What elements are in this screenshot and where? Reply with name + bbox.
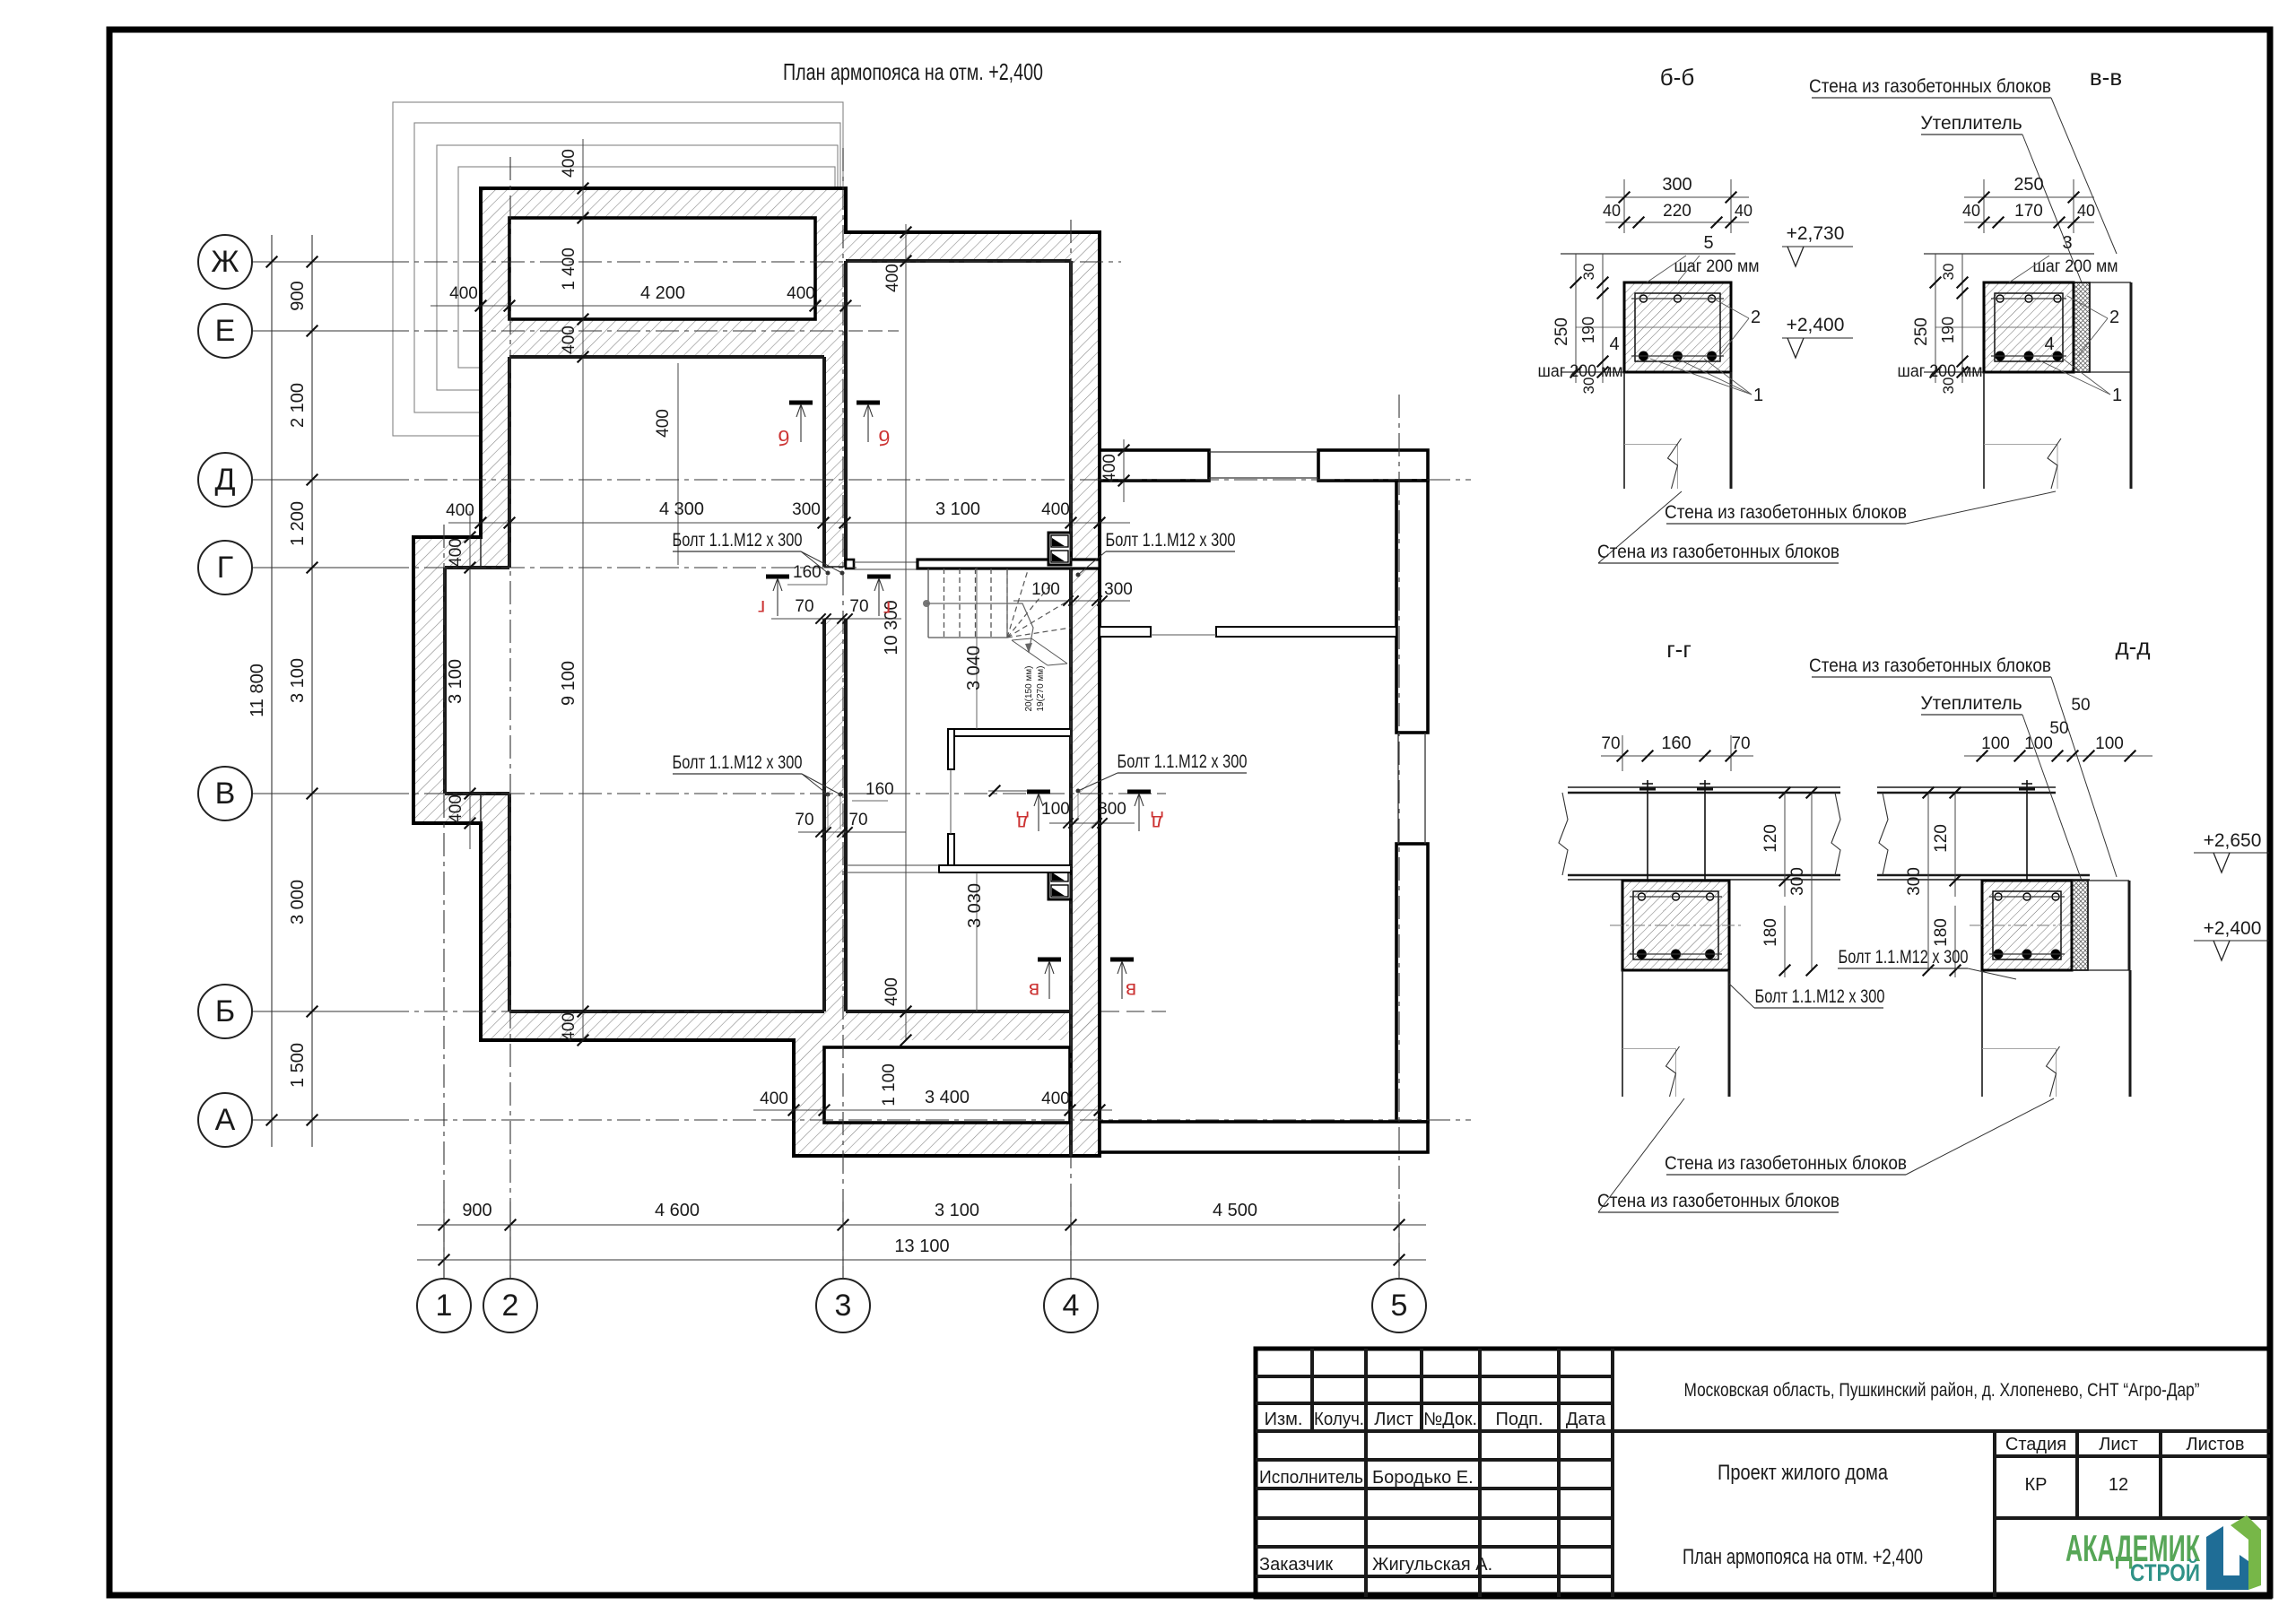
svg-text:4: 4	[2044, 334, 2054, 354]
roof overhang outline	[393, 102, 843, 436]
svg-text:100: 100	[1041, 800, 1070, 819]
svg-text:4 200: 4 200	[640, 283, 685, 303]
svg-text:3 400: 3 400	[925, 1088, 970, 1107]
svg-text:Стена из газобетонных блоков: Стена из газобетонных блоков	[1597, 542, 1839, 562]
stair hall dim line x1010	[905, 224, 907, 1040]
svg-text:4 300: 4 300	[659, 499, 704, 519]
svg-text:3 100: 3 100	[935, 499, 980, 519]
svg-text:4: 4	[1609, 334, 1619, 354]
svg-text:100: 100	[1031, 580, 1060, 599]
wall: right wall axis 4	[1071, 232, 1100, 1156]
svg-text:70: 70	[1601, 734, 1620, 753]
section v-v top dims	[1983, 179, 1985, 233]
wall: central wall upper	[824, 357, 846, 567]
svg-text:400: 400	[560, 325, 578, 354]
svg-text:д-д: д-д	[2116, 633, 2151, 660]
stair walk line	[923, 600, 930, 607]
garage window right	[1397, 733, 1399, 844]
axis lines horizontal	[252, 261, 386, 263]
section g-g floor slab	[1568, 786, 1840, 788]
svg-text:4: 4	[1063, 1289, 1080, 1323]
svg-text:2: 2	[1751, 308, 1761, 327]
svg-text:Стена из газобетонных блоков: Стена из газобетонных блоков	[1809, 655, 2051, 676]
svg-text:170: 170	[2014, 202, 2043, 221]
section v-v left dims	[1935, 254, 1936, 383]
section g-g armopoyas block	[1622, 881, 1729, 970]
svg-text:1: 1	[1753, 386, 1763, 405]
svg-text:Болт 1.1.М12 х 300: Болт 1.1.М12 х 300	[673, 752, 803, 773]
svg-text:160: 160	[1661, 733, 1691, 753]
svg-text:400: 400	[883, 977, 901, 1006]
svg-text:100: 100	[2095, 734, 2124, 753]
section b-b left dims	[1575, 254, 1577, 383]
section d-d left dims	[1954, 793, 1956, 897]
svg-text:+2,400: +2,400	[2204, 918, 2262, 939]
svg-text:3 100: 3 100	[288, 658, 308, 703]
svg-text:300: 300	[1662, 175, 1692, 195]
svg-text:Болт 1.1.М12 х 300: Болт 1.1.М12 х 300	[673, 530, 803, 551]
section marks g	[766, 575, 789, 579]
section b-b top dims	[1623, 179, 1625, 233]
svg-text:70: 70	[795, 597, 813, 616]
left overall dimension 11 800	[271, 235, 273, 1147]
wall outlines	[413, 188, 1100, 1156]
svg-text:19(270 мм): 19(270 мм)	[1036, 666, 1046, 712]
svg-text:30: 30	[1580, 264, 1597, 281]
svg-text:Колуч.: Колуч.	[1314, 1410, 1364, 1429]
svg-text:3: 3	[2062, 233, 2072, 253]
section b-b armopoyas block	[1624, 282, 1731, 372]
svg-text:шаг 200 мм: шаг 200 мм	[1898, 362, 1983, 381]
svg-text:Исполнитель: Исполнитель	[1259, 1468, 1363, 1488]
svg-text:Болт 1.1.М12 х 300: Болт 1.1.М12 х 300	[1755, 986, 1885, 1007]
section v-v slab lines	[1924, 253, 2094, 255]
svg-text:4 600: 4 600	[655, 1201, 700, 1220]
svg-text:в: в	[1029, 979, 1039, 1002]
svg-text:+2,730: +2,730	[1787, 223, 1845, 244]
opening: top room window band	[509, 218, 815, 319]
section g-g anchor bolts	[1647, 780, 1648, 881]
svg-text:Жигульская А.: Жигульская А.	[1372, 1555, 1492, 1575]
svg-text:300: 300	[1104, 580, 1133, 599]
svg-text:шаг 200 мм: шаг 200 мм	[2033, 257, 2118, 276]
svg-text:400: 400	[1041, 500, 1070, 519]
svg-text:Б: Б	[215, 994, 235, 1028]
svg-text:+2,400: +2,400	[1787, 315, 1845, 335]
svg-text:250: 250	[1912, 317, 1931, 346]
svg-text:Лист: Лист	[2099, 1435, 2137, 1454]
svg-text:900: 900	[288, 281, 308, 310]
svg-text:3 000: 3 000	[288, 880, 308, 924]
svg-text:40: 40	[1962, 202, 1980, 220]
svg-text:190: 190	[1579, 317, 1597, 343]
svg-text:70: 70	[849, 597, 868, 616]
svg-text:70: 70	[848, 811, 867, 829]
svg-text:Листов: Листов	[2187, 1435, 2245, 1454]
title block table	[1256, 1349, 2270, 1597]
svg-text:Дата: Дата	[1566, 1410, 1606, 1429]
dim 3 030	[976, 872, 978, 1011]
svg-text:Изм.: Изм.	[1265, 1410, 1303, 1429]
svg-text:9 100: 9 100	[559, 661, 578, 706]
svg-text:1 200: 1 200	[288, 501, 308, 546]
svg-text:3 100: 3 100	[446, 659, 465, 704]
section v-v armopoyas block	[1984, 282, 2074, 372]
svg-text:100: 100	[1981, 734, 2010, 753]
section d-d wall below	[1981, 970, 1983, 1097]
svg-text:5: 5	[1703, 233, 1713, 253]
svg-text:20(150 мм): 20(150 мм)	[1024, 666, 1034, 712]
stair break Z	[1012, 638, 1067, 665]
svg-text:3 030: 3 030	[965, 883, 985, 928]
garage top wall	[1100, 450, 1209, 481]
svg-text:б: б	[778, 426, 789, 449]
svg-text:Московская область, Пушкинский: Московская область, Пушкинский район, д.…	[1684, 1380, 2200, 1401]
svg-text:Стадия: Стадия	[2005, 1435, 2066, 1454]
svg-text:300: 300	[792, 500, 821, 519]
svg-text:50: 50	[2071, 696, 2090, 715]
wall: left wall upper	[481, 357, 509, 568]
wall: left wall lower	[481, 794, 509, 1011]
door threshold lower	[847, 864, 939, 866]
svg-text:СТРОЙ: СТРОЙ	[2130, 1558, 2200, 1586]
dim 4 300 / 300	[448, 522, 1130, 524]
svg-text:12: 12	[2109, 1475, 2128, 1495]
svg-text:900: 900	[462, 1201, 491, 1220]
door jamb cap	[846, 560, 854, 568]
section b-b slab lines	[1561, 253, 1735, 255]
svg-text:Стена из газобетонных блоков: Стена из газобетонных блоков	[1809, 76, 2051, 97]
flue symbol lower	[1048, 867, 1071, 899]
svg-text:Болт 1.1.М12 х 300: Болт 1.1.М12 х 300	[1839, 947, 1969, 968]
svg-text:Заказчик: Заказчик	[1259, 1555, 1333, 1575]
wall: bay window	[413, 537, 481, 823]
wall: central wall lower	[824, 619, 846, 1011]
svg-text:г-г: г-г	[1666, 636, 1692, 663]
stair landing strip	[918, 560, 1100, 568]
svg-text:+2,650: +2,650	[2204, 830, 2262, 851]
address cell	[1613, 1429, 2270, 1433]
svg-text:250: 250	[2013, 175, 2043, 195]
svg-text:1: 1	[436, 1289, 453, 1323]
axis lines vertical	[443, 525, 445, 1279]
svg-text:Утеплитель: Утеплитель	[1920, 113, 2022, 134]
svg-text:Стена из газобетонных блоков: Стена из газобетонных блоков	[1665, 1153, 1907, 1174]
svg-text:4 500: 4 500	[1213, 1201, 1257, 1220]
section b-b wall below	[1623, 372, 1625, 489]
left dimension line segments	[311, 235, 313, 1147]
svg-text:Подп.: Подп.	[1495, 1410, 1543, 1429]
svg-text:400: 400	[447, 794, 465, 823]
svg-text:5: 5	[1391, 1289, 1408, 1323]
svg-text:1: 1	[2112, 386, 2122, 405]
svg-text:160: 160	[865, 780, 894, 799]
svg-text:№Док.: №Док.	[1423, 1410, 1477, 1429]
svg-text:400: 400	[560, 1012, 578, 1041]
svg-text:250: 250	[1552, 317, 1571, 346]
svg-text:Г: Г	[217, 551, 233, 585]
axis circles left	[198, 235, 252, 289]
stair winders	[1006, 568, 1008, 638]
svg-text:400: 400	[449, 284, 478, 303]
svg-text:300: 300	[1905, 867, 1924, 896]
svg-text:220: 220	[1663, 202, 1692, 221]
porch dims	[753, 1109, 1112, 1111]
svg-text:д: д	[1016, 811, 1029, 835]
svg-text:400: 400	[883, 264, 902, 292]
svg-text:Утеплитель: Утеплитель	[1920, 693, 2022, 714]
section d-d armopoyas block	[1982, 881, 2072, 970]
svg-text:180: 180	[1932, 918, 1951, 947]
section marks b	[789, 401, 813, 405]
svg-text:г: г	[883, 597, 891, 621]
svg-text:План армопояса на отм. +2,400: План армопояса на отм. +2,400	[783, 58, 1043, 85]
section g-g top dims	[1622, 735, 1623, 771]
svg-text:1 500: 1 500	[288, 1043, 308, 1088]
svg-text:шаг 200 мм: шаг 200 мм	[1674, 257, 1760, 276]
porch inner slab	[824, 1047, 1070, 1123]
svg-text:2: 2	[502, 1289, 519, 1323]
svg-text:400: 400	[447, 538, 465, 567]
svg-text:120: 120	[1761, 824, 1780, 853]
wall: porch bottom band	[824, 1123, 1070, 1156]
garage wall 400 dim	[1123, 439, 1125, 502]
building footprint	[413, 188, 1100, 1156]
bathroom walls	[948, 729, 1071, 736]
stair treads	[927, 568, 929, 638]
svg-text:100: 100	[2024, 734, 2053, 753]
svg-text:1 400: 1 400	[560, 247, 578, 291]
svg-text:160: 160	[793, 563, 822, 582]
wall: stair hall top band	[846, 232, 1071, 261]
extension stubs to circles	[443, 1202, 445, 1279]
garage window top	[1209, 451, 1318, 453]
section marks d	[1027, 790, 1050, 794]
svg-text:400: 400	[654, 409, 673, 438]
wall: bottom band axis B	[481, 1011, 1100, 1040]
svg-text:КР: КР	[2025, 1475, 2048, 1495]
section v-v wall below	[1983, 372, 1985, 489]
garage partition	[1100, 627, 1151, 637]
vertical dim line x650	[582, 139, 584, 1040]
svg-text:2: 2	[2109, 308, 2119, 327]
svg-text:11 800: 11 800	[248, 664, 267, 717]
section d-d anchor bolt	[2026, 780, 2028, 881]
svg-text:Болт 1.1.М12 х 300: Болт 1.1.М12 х 300	[1118, 751, 1248, 772]
svg-text:190: 190	[1939, 317, 1957, 343]
garage right wall	[1396, 481, 1428, 733]
svg-text:Ж: Ж	[211, 245, 239, 279]
bottom dimension line segments	[417, 1224, 1426, 1226]
section g-g wall below	[1622, 970, 1623, 1097]
svg-text:шаг 200 мм: шаг 200 мм	[1538, 362, 1623, 381]
svg-text:г: г	[758, 596, 765, 620]
vertical dim stub x756	[677, 363, 679, 565]
svg-text:Бородько Е.: Бородько Е.	[1372, 1468, 1474, 1488]
section marks v	[1038, 958, 1061, 962]
svg-text:План армопояса на отм. +2,400: План армопояса на отм. +2,400	[1683, 1545, 1923, 1569]
wall: porch left band	[794, 1040, 824, 1156]
svg-text:40: 40	[1735, 202, 1752, 220]
svg-text:13 100: 13 100	[894, 1237, 949, 1256]
hatched walls: top-left block ring	[481, 188, 846, 357]
svg-text:70: 70	[1731, 734, 1750, 753]
svg-text:3 040: 3 040	[964, 646, 984, 690]
svg-text:в-в: в-в	[2090, 64, 2122, 91]
bay dim line	[469, 511, 471, 849]
dims near d cut 100 300	[988, 790, 1028, 792]
svg-text:70: 70	[795, 811, 813, 829]
svg-text:Е: Е	[215, 314, 236, 348]
section g-g right dims	[1784, 793, 1786, 897]
svg-text:В: В	[215, 777, 236, 811]
svg-text:30: 30	[1940, 264, 1957, 281]
svg-text:Лист: Лист	[1374, 1410, 1413, 1429]
garage bottom wall	[1100, 1122, 1428, 1152]
svg-text:д: д	[1151, 811, 1163, 835]
svg-text:40: 40	[1603, 202, 1621, 220]
logo house icon	[2206, 1526, 2248, 1590]
svg-text:А: А	[215, 1103, 236, 1137]
bay window inner lines	[443, 568, 447, 794]
svg-text:180: 180	[1761, 918, 1780, 947]
svg-text:3 100: 3 100	[935, 1201, 979, 1220]
svg-text:Болт 1.1.М12 х 300: Болт 1.1.М12 х 300	[1106, 530, 1236, 551]
svg-text:б: б	[878, 426, 890, 449]
svg-text:40: 40	[2077, 202, 2095, 220]
svg-text:300: 300	[1098, 800, 1126, 819]
svg-text:1 100: 1 100	[880, 1063, 899, 1107]
stage/sheet columns	[1993, 1431, 1996, 1597]
dim 3 040	[976, 567, 978, 729]
svg-text:400: 400	[760, 1089, 788, 1108]
dim 4 200	[430, 305, 861, 307]
svg-text:в: в	[1126, 979, 1136, 1002]
svg-text:400: 400	[1100, 454, 1119, 482]
svg-text:400: 400	[787, 284, 815, 303]
axis circles bottom	[417, 1279, 471, 1332]
svg-text:2 100: 2 100	[288, 383, 308, 428]
svg-text:Д: Д	[214, 463, 235, 497]
svg-text:Стена из газобетонных блоков: Стена из газобетонных блоков	[1597, 1191, 1839, 1211]
svg-text:3: 3	[835, 1289, 852, 1323]
svg-text:Проект жилого дома: Проект жилого дома	[1718, 1461, 1889, 1485]
svg-text:б-б: б-б	[1660, 64, 1694, 91]
svg-text:400: 400	[1041, 1089, 1070, 1108]
svg-text:120: 120	[1932, 824, 1951, 853]
svg-text:Стена из газобетонных блоков: Стена из газобетонных блоков	[1665, 502, 1907, 523]
flue symbol upper	[1048, 533, 1071, 565]
svg-text:400: 400	[560, 149, 578, 178]
svg-text:300: 300	[1788, 867, 1807, 896]
bottom overall dimension 13 100	[417, 1259, 1426, 1261]
